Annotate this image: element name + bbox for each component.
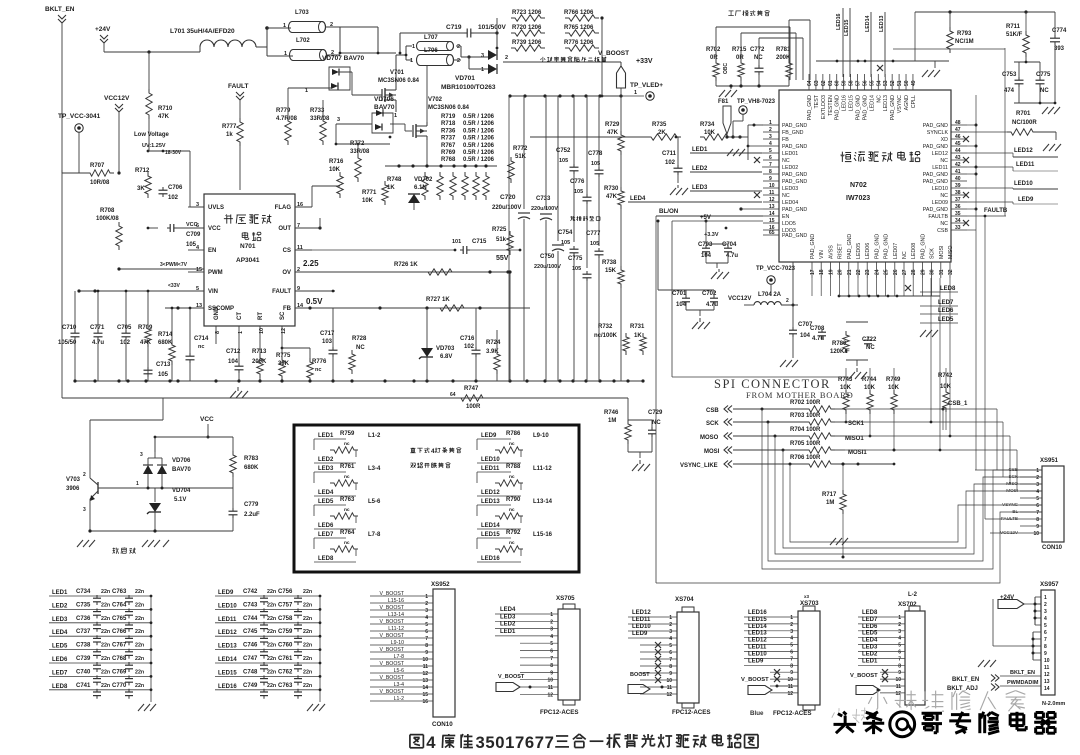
- svg-text:SYNCLK: SYNCLK: [927, 130, 949, 136]
- diode VD706: [336, 96, 412, 138]
- svg-text:R746: R746: [604, 410, 619, 416]
- ground c703: [711, 269, 732, 280]
- svg-text:60: 60: [835, 80, 841, 86]
- svg-text:104: 104: [800, 333, 811, 339]
- svg-text:63: 63: [814, 80, 820, 86]
- svg-text:22n: 22n: [135, 656, 144, 662]
- svg-text:LED8: LED8: [862, 610, 878, 616]
- svg-text:SCK: SCK: [930, 248, 936, 259]
- svg-text:C738: C738: [76, 643, 91, 649]
- svg-text:CSB_1: CSB_1: [948, 401, 968, 407]
- svg-text:11: 11: [423, 664, 429, 670]
- svg-text:22n: 22n: [135, 616, 144, 622]
- svg-text:MISO: MISO: [948, 245, 954, 259]
- resistor R734: [675, 122, 742, 140]
- text 0.5R resistor list: [441, 114, 495, 163]
- wire nc43 x: [963, 157, 969, 163]
- resistor R748: [382, 177, 402, 205]
- connector XS704: [628, 596, 711, 716]
- svg-text:V_BOOST: V_BOOST: [598, 50, 629, 57]
- svg-text:RISET: RISET: [838, 243, 844, 259]
- svg-text:2: 2: [505, 55, 508, 61]
- resistor R703 100R: [790, 413, 865, 427]
- svg-text:C763: C763: [112, 589, 127, 595]
- svg-text:57: 57: [856, 80, 862, 86]
- svg-text:LED9: LED9: [632, 631, 648, 637]
- svg-text:NC: NC: [782, 158, 790, 164]
- svg-text:EXTLDO3: EXTLDO3: [821, 95, 827, 119]
- svg-text:OV: OV: [282, 270, 291, 276]
- svg-text:LED12: LED12: [748, 638, 767, 644]
- svg-text:V_BOOST: V_BOOST: [850, 673, 878, 679]
- svg-text:6: 6: [669, 650, 672, 656]
- text figure caption: [410, 733, 758, 752]
- svg-text:PAD_GND: PAD_GND: [782, 172, 807, 178]
- svg-text:NC: NC: [940, 158, 948, 164]
- svg-text:1: 1: [898, 615, 901, 621]
- svg-text:Low Voltage: Low Voltage: [134, 132, 170, 138]
- svg-text:L3-4: L3-4: [368, 466, 381, 472]
- wire node to L702 L703: [267, 28, 293, 56]
- svg-text:C767: C767: [112, 643, 127, 649]
- svg-text:0: 0: [495, 733, 504, 752]
- svg-text:LED04: LED04: [782, 200, 798, 206]
- capacitor C701: [672, 290, 690, 310]
- svg-text:TP_VCC-7023: TP_VCC-7023: [756, 266, 796, 272]
- svg-text:LED10: LED10: [1014, 181, 1033, 187]
- resistor R742: [938, 368, 953, 430]
- svg-text:64: 64: [807, 80, 813, 86]
- svg-text:2: 2: [457, 44, 460, 50]
- svg-text:C774: C774: [1052, 28, 1067, 34]
- svg-text:L1-2: L1-2: [368, 433, 381, 439]
- LED pairs left column: [314, 431, 381, 562]
- capacitor C719: [399, 24, 507, 54]
- svg-text:2: 2: [669, 622, 672, 628]
- svg-text:C756: C756: [278, 589, 293, 595]
- svg-text:VD707 BAV70: VD707 BAV70: [322, 55, 365, 62]
- svg-text:11: 11: [896, 684, 902, 690]
- svg-text:OBC: OBC: [723, 63, 729, 75]
- svg-text:C747: C747: [243, 656, 258, 662]
- svg-text:3: 3: [481, 53, 484, 59]
- wire vin net: [77, 283, 204, 293]
- svg-text:LED7: LED7: [318, 532, 334, 538]
- connector XS957: [1040, 581, 1059, 695]
- svg-text:R776 1206: R776 1206: [564, 40, 594, 46]
- svg-text:9: 9: [669, 671, 672, 677]
- net +24V input: [95, 26, 149, 52]
- svg-text:3: 3: [1036, 482, 1039, 488]
- svg-text:C743: C743: [243, 602, 258, 608]
- svg-text:1k: 1k: [226, 132, 233, 138]
- svg-text:6: 6: [550, 649, 553, 655]
- svg-text:58: 58: [849, 80, 855, 86]
- svg-text:10K: 10K: [704, 130, 716, 136]
- svg-text:R738: R738: [602, 260, 617, 266]
- capacitor C775: [568, 256, 592, 381]
- svg-text:0.5R / 1206: 0.5R / 1206: [463, 128, 495, 134]
- svg-text:R727 1K: R727 1K: [426, 297, 450, 303]
- wire fb to r735: [390, 122, 681, 308]
- svg-text:120K/F: 120K/F: [830, 349, 850, 355]
- wire mosi down: [939, 278, 942, 451]
- net VCC label: [200, 416, 214, 439]
- net MOSI in: [704, 447, 805, 456]
- svg-text:FPC12-ACES: FPC12-ACES: [773, 710, 812, 717]
- svg-text:6: 6: [790, 650, 793, 656]
- svg-text:22n: 22n: [135, 589, 144, 595]
- svg-text:NC: NC: [1040, 88, 1049, 94]
- resistors R723 R720 R739 R766 R765 R776: [496, 10, 604, 97]
- svg-text:1: 1: [283, 23, 286, 29]
- svg-text:nc: nc: [509, 508, 515, 513]
- wire synclk: [950, 138, 952, 140]
- svg-text:R705 100R: R705 100R: [790, 441, 821, 447]
- svg-text:VD702: VD702: [414, 177, 433, 183]
- svg-text:R761: R761: [340, 464, 355, 470]
- capacitor C775b: [1014, 62, 1056, 104]
- svg-text:1: 1: [284, 51, 287, 57]
- ground xs957: [978, 660, 999, 668]
- svg-text:C709: C709: [186, 232, 201, 238]
- svg-text:7: 7: [1044, 637, 1047, 643]
- svg-text:R769: R769: [441, 150, 456, 156]
- svg-text:22n: 22n: [303, 643, 312, 649]
- svg-text:1M: 1M: [608, 418, 616, 424]
- svg-text:AVSS: AVSS: [828, 245, 834, 259]
- svg-text:SCK: SCK: [706, 421, 719, 427]
- svg-text:C705: C705: [117, 325, 132, 331]
- svg-text:0.5R / 1206: 0.5R / 1206: [463, 121, 495, 127]
- svg-text:nc: nc: [344, 475, 350, 480]
- svg-text:1: 1: [505, 733, 514, 752]
- svg-text:R777: R777: [222, 124, 237, 130]
- svg-text:LED8: LED8: [940, 286, 956, 292]
- svg-text:N702: N702: [850, 182, 867, 189]
- svg-text:LED5: LED5: [862, 631, 878, 637]
- svg-text:220u/100V: 220u/100V: [492, 205, 521, 211]
- svg-text:MC3SN06 0.84: MC3SN06 0.84: [378, 78, 420, 84]
- wire sck1 net: [845, 422, 1003, 477]
- svg-text:nc/100K: nc/100K: [594, 333, 618, 339]
- svg-text:22: 22: [856, 269, 862, 275]
- svg-text:11: 11: [788, 684, 794, 690]
- svg-text:PAD_GND: PAD_GND: [782, 179, 807, 185]
- svg-text:56: 56: [862, 80, 868, 86]
- svg-text:LED13: LED13: [218, 644, 237, 650]
- resistor R716: [329, 159, 344, 198]
- svg-text:C714: C714: [194, 336, 209, 342]
- svg-text:XS957: XS957: [1040, 581, 1059, 588]
- ground soft mid: [142, 540, 169, 548]
- svg-text:0R: 0R: [736, 55, 744, 61]
- svg-text:33R/08: 33R/08: [350, 149, 370, 155]
- svg-text:+33V: +33V: [636, 58, 653, 65]
- testpoint TP_VLED+: [621, 82, 663, 100]
- svg-text:LED10: LED10: [218, 603, 237, 609]
- svg-text:L9-10: L9-10: [533, 433, 549, 439]
- svg-text:C753: C753: [1002, 72, 1017, 78]
- wire xs957 bracket2: [993, 599, 1041, 660]
- svg-text:VIN: VIN: [819, 250, 825, 259]
- svg-text:47K: 47K: [606, 194, 618, 200]
- svg-text:12: 12: [1044, 672, 1050, 678]
- resistor R730: [604, 186, 624, 266]
- capacitor C714: [186, 307, 210, 381]
- svg-text:BKLT_EN: BKLT_EN: [952, 677, 979, 683]
- net LED7 stub: [920, 300, 958, 306]
- watermark headline: [833, 712, 1056, 737]
- testpoint TP_VCC-3041: [58, 113, 101, 173]
- svg-text:C760: C760: [278, 643, 293, 649]
- ground agnd: [922, 61, 943, 78]
- svg-text:XS705: XS705: [556, 595, 575, 602]
- svg-text:52: 52: [890, 80, 896, 86]
- svg-text:LED1: LED1: [52, 590, 68, 596]
- svg-text:VCC: VCC: [208, 226, 221, 232]
- capacitor C774: [1050, 12, 1067, 103]
- svg-text:NC: NC: [356, 345, 365, 351]
- capacitor C720 electrolytic: [492, 96, 530, 381]
- svg-text:C770: C770: [112, 683, 127, 689]
- svg-text:3: 3: [83, 507, 86, 513]
- svg-text:22n: 22n: [303, 629, 312, 635]
- svg-text:6: 6: [425, 629, 428, 635]
- connector XS951 CON10: [1000, 458, 1064, 551]
- svg-text:26: 26: [893, 269, 899, 275]
- capacitor C706: [159, 151, 184, 228]
- capacitor C708: [810, 296, 826, 352]
- svg-text:59: 59: [842, 80, 848, 86]
- capacitor C705: [117, 290, 132, 381]
- svg-text:7: 7: [425, 636, 428, 642]
- svg-text:PAD_GND: PAD_GND: [782, 123, 807, 129]
- svg-text:12: 12: [787, 691, 793, 697]
- svg-text:CON10: CON10: [432, 721, 453, 728]
- wire pwm net: [117, 262, 204, 272]
- svg-text:MOSI: MOSI: [1006, 488, 1018, 493]
- svg-text:5: 5: [898, 643, 901, 649]
- resistor R706 100R: [790, 450, 895, 467]
- svg-text:18: 18: [819, 269, 825, 275]
- svg-text:LED15: LED15: [218, 670, 237, 676]
- svg-text:1: 1: [410, 58, 413, 64]
- svg-text:R739 1206: R739 1206: [512, 40, 542, 46]
- svg-text:55V: 55V: [496, 255, 509, 262]
- svg-text:nc: nc: [344, 508, 350, 513]
- svg-text:R710: R710: [158, 106, 173, 112]
- svg-text:LED6: LED6: [318, 523, 334, 529]
- svg-text:R702 100R: R702 100R: [790, 400, 821, 406]
- svg-text:TP_VLED+: TP_VLED+: [630, 82, 663, 89]
- svg-text:C775: C775: [568, 256, 583, 262]
- svg-text:16: 16: [422, 699, 428, 705]
- wire led1 pin5: [762, 152, 763, 154]
- svg-text:R776: R776: [312, 359, 327, 365]
- svg-text:V_BOOST: V_BOOST: [379, 619, 404, 625]
- resistor R728: [349, 291, 367, 381]
- svg-text:NC: NC: [866, 345, 875, 351]
- svg-text:R793: R793: [957, 31, 972, 37]
- svg-text:LED7: LED7: [52, 670, 68, 676]
- ground main rail: [230, 387, 251, 399]
- svg-text:SC: SC: [280, 311, 286, 320]
- svg-text:FB_GND: FB_GND: [782, 130, 804, 136]
- svg-text:L1-2: L1-2: [394, 696, 404, 702]
- svg-text:VSYNC: VSYNC: [1002, 502, 1019, 507]
- svg-text:47K: 47K: [158, 114, 170, 120]
- svg-text:+24V: +24V: [95, 26, 111, 33]
- svg-text:C739: C739: [76, 656, 91, 662]
- text box caption1: [410, 448, 461, 455]
- wire top right rail: [915, 10, 1055, 61]
- svg-text:PAD_GND: PAD_GND: [884, 234, 890, 259]
- svg-text:4: 4: [426, 733, 436, 752]
- svg-text:LED6: LED6: [938, 308, 954, 314]
- op-amp N701 AP3041 boost driver IC: [188, 194, 312, 344]
- svg-text:LED11: LED11: [932, 165, 948, 171]
- svg-text:5: 5: [425, 622, 428, 628]
- svg-text:55: 55: [869, 80, 875, 86]
- connector XS702: [858, 592, 925, 705]
- wire sscomp: [165, 306, 204, 309]
- svg-text:R708: R708: [100, 208, 115, 214]
- capacitor C712: [226, 344, 244, 381]
- svg-text:22n: 22n: [101, 629, 110, 635]
- svg-text:L7-8: L7-8: [368, 532, 381, 538]
- svg-text:22n: 22n: [101, 643, 110, 649]
- wire bl route: [830, 367, 935, 369]
- svg-text:R772: R772: [513, 146, 528, 152]
- wire xs705 vboost: [496, 674, 545, 695]
- svg-text:LED1: LED1: [500, 629, 516, 635]
- svg-text:R775: R775: [276, 353, 291, 359]
- wire switch node: [339, 27, 396, 54]
- svg-text:R720 1206: R720 1206: [512, 25, 542, 31]
- svg-text:0.5R / 1206: 0.5R / 1206: [463, 150, 495, 156]
- svg-text:LED3: LED3: [52, 617, 68, 623]
- svg-text:7: 7: [1036, 510, 1039, 516]
- svg-text:C758: C758: [278, 616, 293, 622]
- svg-text:R734: R734: [700, 122, 715, 128]
- svg-text:1: 1: [634, 90, 637, 96]
- ground c729: [632, 460, 653, 472]
- wires factory to ic pins: [790, 20, 810, 80]
- svg-text:10: 10: [666, 678, 672, 684]
- svg-text:R744: R744: [862, 377, 877, 383]
- svg-text:R790: R790: [506, 497, 521, 503]
- svg-text:11: 11: [548, 685, 554, 691]
- net +5V: [672, 215, 848, 377]
- svg-text:9: 9: [790, 670, 793, 676]
- svg-text:NC: NC: [652, 420, 661, 426]
- svg-text:NC/1M: NC/1M: [955, 39, 974, 45]
- svg-text:R768: R768: [441, 157, 456, 163]
- svg-text:102: 102: [464, 344, 475, 350]
- svg-text:R729: R729: [605, 122, 620, 128]
- svg-text:C704: C704: [722, 242, 737, 248]
- svg-text:C778: C778: [588, 151, 603, 157]
- net LED11 right: [967, 162, 1058, 171]
- svg-text:FAULT: FAULT: [228, 83, 248, 90]
- svg-text:MISO1: MISO1: [845, 436, 864, 442]
- svg-text:105: 105: [590, 241, 599, 247]
- resistor R702f: [706, 27, 721, 86]
- svg-text:V_BOOST: V_BOOST: [379, 689, 404, 695]
- ground r701: [1043, 144, 1064, 152]
- wire softstart feed: [90, 398, 163, 420]
- svg-text:CSB: CSB: [1009, 467, 1018, 472]
- svg-text:4: 4: [898, 636, 901, 642]
- svg-text:7: 7: [535, 733, 544, 752]
- svg-text:LED9: LED9: [1018, 197, 1034, 203]
- svg-text:LED09: LED09: [932, 200, 948, 206]
- svg-text:LED1: LED1: [318, 433, 334, 439]
- svg-text:NC/100R: NC/100R: [1012, 120, 1037, 126]
- svg-text:R728: R728: [352, 336, 367, 342]
- svg-text:VIN: VIN: [208, 289, 218, 295]
- svg-text:R737: R737: [441, 136, 456, 142]
- svg-text:5: 5: [485, 733, 494, 752]
- svg-text:C746: C746: [243, 643, 258, 649]
- svg-text:L13-14: L13-14: [533, 499, 553, 505]
- svg-text:LED15: LED15: [844, 19, 850, 36]
- diode VD706b: [140, 436, 192, 488]
- capacitor C702: [657, 220, 719, 317]
- svg-text:C776: C776: [570, 179, 585, 185]
- wire out: [295, 218, 322, 230]
- resistor R772 51K: [508, 96, 528, 190]
- svg-text:R732: R732: [598, 324, 613, 330]
- svg-text:PAD_GND: PAD_GND: [923, 123, 948, 129]
- svg-text:PWMDADIM: PWMDADIM: [1007, 680, 1039, 686]
- svg-text:5: 5: [790, 643, 793, 649]
- svg-text:LED7: LED7: [862, 617, 878, 623]
- svg-text:LED11: LED11: [748, 645, 767, 651]
- svg-text:31: 31: [939, 269, 945, 275]
- svg-text:FB: FB: [782, 137, 789, 143]
- svg-text:32: 32: [948, 269, 954, 275]
- svg-text:2: 2: [786, 298, 789, 304]
- svg-text:LED6: LED6: [52, 657, 68, 663]
- wire led2 pin7: [762, 166, 763, 168]
- svg-text:C763: C763: [278, 683, 293, 689]
- svg-text:105: 105: [158, 372, 169, 378]
- wire vcc rail soft: [155, 437, 233, 452]
- svg-text:22n: 22n: [101, 602, 110, 608]
- svg-text:LED01: LED01: [782, 151, 798, 157]
- svg-text:22n: 22n: [101, 616, 110, 622]
- svg-text:54: 54: [876, 80, 882, 86]
- resistor R738: [602, 260, 624, 381]
- net SCK in: [706, 419, 805, 428]
- svg-text:64: 64: [450, 392, 456, 398]
- svg-text:LED7: LED7: [938, 300, 954, 306]
- net CSB in: [706, 406, 805, 415]
- resistor R713: [252, 344, 267, 381]
- svg-text:PAD_GND: PAD_GND: [920, 234, 926, 259]
- resistor R779: [276, 88, 310, 145]
- svg-text:BL: BL: [1012, 509, 1018, 514]
- svg-text:LED3: LED3: [500, 614, 516, 620]
- svg-text:6: 6: [525, 733, 534, 752]
- svg-text:680K: 680K: [158, 340, 173, 346]
- svg-text:9: 9: [425, 650, 428, 656]
- wire r747 right: [604, 398, 663, 458]
- svg-text:C748: C748: [243, 669, 258, 675]
- svg-text:3: 3: [425, 608, 428, 614]
